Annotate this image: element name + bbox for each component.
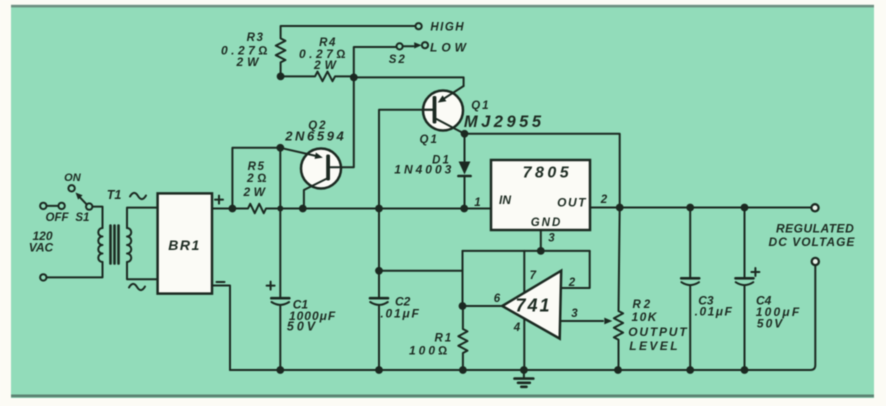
Q1 emitter lead with arrowhead [438,86,464,103]
switch S1 pole contact [86,203,92,209]
junction Q1 collector [461,130,469,138]
svg-text:1: 1 [474,197,480,209]
svg-text:Q1: Q1 [471,100,490,112]
svg-text:IN: IN [499,193,511,207]
svg-text:REGULATED: REGULATED [776,222,854,236]
node: 120VAC lower terminal [40,274,46,280]
svg-text:2N6594: 2N6594 [284,129,346,144]
junction bottom rail R1 [459,366,467,374]
wire Q1 collector to output rail [465,134,620,208]
svg-text:VAC: VAC [29,241,54,255]
svg-text:OUTPUT: OUTPUT [628,325,688,339]
Q1 base bar [433,96,437,124]
svg-text:2W: 2W [313,58,340,72]
AC tilde top [130,193,146,199]
junction BR1 positive [229,205,237,213]
node output positive terminal [811,204,818,211]
pin 4 wire to ground rail [523,319,525,371]
svg-text:.01μF: .01μF [380,307,420,321]
junction Q2 collector rail [299,205,307,213]
plus sign C4 [751,268,759,276]
svg-text:T1: T1 [107,188,122,202]
label R4 0.27ohm 2W [299,37,349,72]
junction Q2 emitter node [276,144,284,152]
diode D1 [458,134,470,209]
svg-text:7805: 7805 [523,165,573,182]
resistor R3 vertical with wire to HIGH [276,26,416,76]
junction pin4 ground [520,366,528,374]
svg-text:S2: S2 [389,54,407,66]
svg-text:Q1: Q1 [420,134,439,146]
wire R4 junction up to switch S2 [354,47,397,77]
wire lower terminal to transformer primary [47,262,103,277]
junction R4 right [350,74,358,82]
switch S1 arm with arrow [76,193,87,205]
Q1 collector lead [437,119,465,134]
svg-text:DC VOLTAGE: DC VOLTAGE [769,235,856,249]
wire terminal to switch [47,205,59,207]
svg-text:6: 6 [494,293,501,305]
svg-text:2W: 2W [236,55,263,69]
svg-text:10K: 10K [631,310,658,324]
junction pin6 node [459,302,467,310]
svg-text:4: 4 [513,322,521,334]
junction bottom rail R2 [614,366,622,374]
junction D1 rail [460,205,468,213]
svg-text:3: 3 [571,308,578,320]
node HIGH terminal [416,23,422,29]
svg-text:OFF: OFF [46,212,70,224]
wire GND feedback line [463,250,590,252]
wire BR1 negative to bottom rail [212,286,230,371]
svg-text:S1: S1 [75,212,89,224]
svg-text:.01μF: .01μF [695,305,734,319]
svg-text:50V: 50V [287,320,318,334]
wire bottom ground rail [230,266,815,371]
svg-text:2: 2 [600,194,608,206]
junction bottom rail C3 [686,366,694,374]
op-amp U2 741 [502,271,561,339]
Q2 collector lead [304,179,327,209]
regulator U1 7805 box [491,160,590,230]
switch S2 left contact [397,43,403,49]
plus sign BR1 output [215,196,223,204]
junction C3 top [686,204,694,212]
resistor R4 horizontal [281,72,354,82]
svg-text:2Ω: 2Ω [246,171,270,185]
wire 7805 OUT to output rail [590,207,812,209]
junction C4 top [741,204,749,212]
svg-text:BR1: BR1 [168,237,201,253]
Q2 base bar [326,155,330,181]
wire secondary top to BR1 [127,208,158,228]
wire switch to transformer primary [92,207,102,228]
svg-text:ON: ON [64,172,82,184]
label R3 0.27ohm 2W [221,32,271,69]
junction bottom rail C4 [741,366,749,374]
transformer T1 secondary winding [127,228,131,262]
wire C2 top to op-amp node [379,270,463,272]
svg-text:LEVEL: LEVEL [629,339,680,353]
svg-text:50V: 50V [757,317,784,331]
junction C2 top [375,267,383,275]
wire main positive rail with resistor R5 [212,204,491,213]
wire pin 6 output [463,305,503,307]
svg-text:LOW: LOW [430,41,470,55]
capacitor C1 [271,209,289,371]
Q1 base inner lead [424,109,433,111]
potentiometer R2 [614,208,623,371]
junction bottom rail C1 [276,366,284,374]
transistor Q1 body [423,91,463,131]
svg-text:741: 741 [515,296,551,316]
top edge shadow line [11,5,874,8]
junction emitter node rail [277,206,283,212]
capacitor C3 [681,208,699,371]
minus sign BR1 output [217,281,225,283]
transistor Q2 body [301,149,341,189]
node output negative terminal [812,258,819,265]
wire R4 junction to Q1 emitter [354,77,464,86]
junction GND pin [537,247,545,255]
Q2 emitter lead with arrowhead [280,148,323,159]
switch S1 OFF contact [58,203,64,209]
wire R5 bypass loop to Q2 emitter node [232,148,280,209]
AC tilde bottom [129,284,145,290]
svg-text:HIGH: HIGH [430,22,465,34]
switch S1 ON contact [68,185,74,191]
capacitor C4 [736,208,754,371]
svg-text:2: 2 [568,277,576,289]
svg-text:GND: GND [531,217,563,229]
svg-text:OUT: OUT [557,196,587,210]
wire 7805 GND pin [540,230,542,251]
junction R3-R4 [277,73,285,81]
wire GND line down to op-amp output node [462,251,464,306]
bridge rectifier BR1 [158,193,212,293]
plus sign C1 [267,282,275,290]
label R5 2ohm 2W [243,161,270,199]
svg-text:1N4003: 1N4003 [394,163,454,177]
Q2 base wire [330,77,354,167]
wire Q1 base [379,110,433,209]
svg-text:R3: R3 [247,32,265,44]
capacitor C2 [370,209,388,371]
switch S2 LOW contact [422,42,428,48]
wire pin2 of 741 to GND line [561,251,590,288]
svg-text:MJ2955: MJ2955 [464,113,545,131]
svg-text:3: 3 [548,233,555,245]
switch S2 arrow [404,42,422,48]
junction bottom rail C2 [375,366,383,374]
transformer T1 primary winding [98,228,102,262]
wire pin 3 to R2 wiper with arrow [560,318,612,325]
svg-text:100Ω: 100Ω [409,344,450,358]
svg-text:2W: 2W [243,185,269,199]
ground symbol [515,370,534,387]
wire secondary bottom to BR1 [127,262,158,279]
pin 7 wire [523,251,525,293]
node: 120VAC upper terminal [40,203,46,209]
label 120 VAC [29,229,54,255]
junction base line rail [375,205,383,213]
wire emitter node down to rail [279,148,281,209]
junction output rail R2 [616,204,624,212]
transformer T1 core [111,226,119,264]
resistor R1 [458,306,467,370]
bottom edge shadow line [11,395,874,398]
svg-text:7: 7 [530,270,537,282]
